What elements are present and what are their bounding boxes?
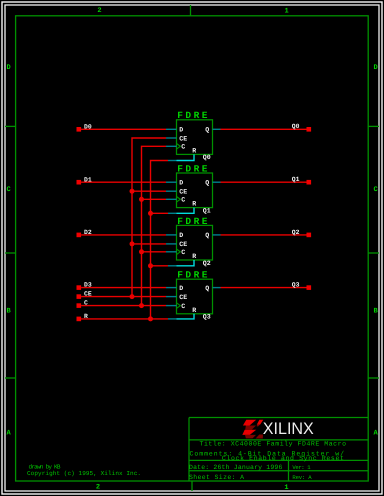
flip-flop U3 FDRE box xyxy=(177,225,213,260)
pin stub U2 C xyxy=(166,198,177,200)
wire Q3 output xyxy=(221,287,307,289)
left zone tick 1 xyxy=(5,125,16,127)
right zone tick 2 xyxy=(368,252,379,254)
input terminal CE xyxy=(77,294,82,299)
svg-text:C: C xyxy=(181,197,185,204)
pin stub U3 CE xyxy=(166,243,177,245)
svg-text:Ver: 1: Ver: 1 xyxy=(292,464,311,471)
R pin cyan wire U3 xyxy=(177,260,195,266)
title block column divider xyxy=(288,460,290,481)
svg-text:C: C xyxy=(181,249,185,256)
pin stub U2 R xyxy=(168,212,177,214)
svg-text:R: R xyxy=(192,201,196,208)
junction R net dot 2 xyxy=(148,263,153,268)
wire D2 xyxy=(81,234,166,236)
R pin cyan wire U1 xyxy=(177,154,195,160)
title block top edge xyxy=(189,417,368,419)
svg-text:D: D xyxy=(179,127,183,134)
svg-text:CE: CE xyxy=(179,241,187,248)
title block row line under date xyxy=(189,470,368,472)
svg-text:D1: D1 xyxy=(84,176,92,183)
R pin cyan wire U2 xyxy=(177,208,195,214)
svg-text:2: 2 xyxy=(96,484,100,492)
C vertical bus xyxy=(142,146,167,305)
right zone tick 1 xyxy=(368,125,379,127)
junction R net dot 1 xyxy=(148,211,153,216)
svg-text:Q1: Q1 xyxy=(292,176,300,183)
svg-text:2: 2 xyxy=(97,7,101,15)
svg-text:Q2: Q2 xyxy=(292,229,300,236)
flip-flop U1 FDRE box xyxy=(177,120,213,155)
clock wedge U2 xyxy=(177,197,181,203)
wire C input xyxy=(81,305,166,307)
junction CE net dot 2 xyxy=(130,241,135,246)
CE branch to U3 xyxy=(132,243,166,245)
svg-text:1: 1 xyxy=(284,8,288,16)
output terminal Q2 xyxy=(307,233,312,238)
svg-text:D: D xyxy=(6,64,10,72)
wire D1 xyxy=(81,181,166,183)
svg-text:R: R xyxy=(192,148,196,155)
pin stub U4 D xyxy=(166,287,177,289)
input terminal D1 xyxy=(77,180,82,185)
svg-text:R: R xyxy=(192,307,196,314)
svg-text:Q: Q xyxy=(205,285,209,292)
pin stub U4 C xyxy=(166,305,177,307)
svg-text:D: D xyxy=(373,64,377,72)
wire D3 xyxy=(81,287,166,289)
wire D0 xyxy=(81,128,166,130)
junction R net dot 3 xyxy=(148,316,153,321)
pin stub U1 D xyxy=(166,128,177,130)
right zone tick 3 xyxy=(368,377,379,379)
R branch to U3 xyxy=(151,265,169,267)
svg-text:FDRE: FDRE xyxy=(177,216,210,227)
svg-text:Q0: Q0 xyxy=(292,123,300,130)
svg-text:D: D xyxy=(179,285,183,292)
clock wedge U1 xyxy=(177,144,181,150)
pin stub U1 R xyxy=(168,160,177,162)
CE branch to U2 xyxy=(132,190,166,192)
left zone tick 3 xyxy=(5,377,16,379)
clock wedge U4 xyxy=(177,303,181,309)
svg-text:D: D xyxy=(179,180,183,187)
svg-text:C: C xyxy=(373,186,377,194)
pin stub U2 Q xyxy=(213,181,221,183)
title block row line under comments xyxy=(189,459,368,461)
junction C net dot 1 xyxy=(139,197,144,202)
pin stub U4 R xyxy=(168,318,177,320)
clock wedge U3 xyxy=(177,249,181,255)
svg-text:CE: CE xyxy=(179,189,187,196)
title block row line under logo xyxy=(189,439,368,441)
bottom zone tick xyxy=(191,481,193,491)
svg-text:D: D xyxy=(179,232,183,239)
C branch to U3 xyxy=(142,251,167,253)
svg-text:R: R xyxy=(84,313,88,320)
junction C net dot 3 xyxy=(139,303,144,308)
pin stub U3 D xyxy=(166,234,177,236)
R pin cyan wire U4 xyxy=(177,314,195,319)
pin stub U2 D xyxy=(166,181,177,183)
svg-text:FDRE: FDRE xyxy=(177,110,210,121)
svg-text:C: C xyxy=(181,144,185,151)
input terminal D0 xyxy=(77,127,82,132)
svg-text:D3: D3 xyxy=(84,282,92,289)
pin stub U4 Q xyxy=(213,287,221,289)
svg-text:Rev: A: Rev: A xyxy=(292,474,312,481)
pin stub U3 R xyxy=(168,265,177,267)
wire Q1 output xyxy=(221,181,307,183)
svg-text:Sheet Size: A: Sheet Size: A xyxy=(189,474,244,481)
pin stub U4 CE xyxy=(166,296,177,298)
title block left edge xyxy=(188,418,190,481)
C branch to U2 xyxy=(142,198,167,200)
svg-text:Clock Enable and Sync Reset: Clock Enable and Sync Reset xyxy=(222,455,344,462)
svg-text:CE: CE xyxy=(84,291,92,298)
pin stub U1 Q xyxy=(213,128,221,130)
svg-text:Date: 26th January 1996: Date: 26th January 1996 xyxy=(189,464,282,471)
junction C net dot 2 xyxy=(139,249,144,254)
input terminal R xyxy=(77,317,82,322)
junction CE net dot 1 xyxy=(130,189,135,194)
svg-text:XILINX: XILINX xyxy=(263,419,314,438)
svg-text:Q1: Q1 xyxy=(203,207,211,214)
svg-text:C: C xyxy=(6,186,10,194)
output terminal Q3 xyxy=(307,285,312,290)
wire R input xyxy=(81,318,168,320)
svg-text:CE: CE xyxy=(179,135,187,142)
svg-text:R: R xyxy=(192,253,196,260)
svg-text:1: 1 xyxy=(284,484,288,492)
output terminal Q1 xyxy=(307,180,312,185)
flip-flop U4 FDRE box xyxy=(177,279,213,314)
wire Q0 output xyxy=(221,128,307,130)
pin stub U1 C xyxy=(166,145,177,147)
junction CE net dot 3 xyxy=(130,294,135,299)
svg-text:Q: Q xyxy=(205,180,209,187)
svg-text:Q2: Q2 xyxy=(203,260,211,267)
input terminal C xyxy=(77,303,82,308)
input terminal D3 xyxy=(77,285,82,290)
svg-text:Q3: Q3 xyxy=(203,314,211,321)
pin stub U3 C xyxy=(166,251,177,253)
pin stub U3 Q xyxy=(213,234,221,236)
svg-text:D2: D2 xyxy=(84,229,92,236)
svg-text:C: C xyxy=(181,303,185,310)
svg-text:Title: XC4000E Family FD4RE Ma: Title: XC4000E Family FD4RE Macro xyxy=(200,441,347,448)
input terminal D2 xyxy=(77,233,82,238)
svg-text:Q: Q xyxy=(205,232,209,239)
wire Q2 output xyxy=(221,234,307,236)
wire CE input xyxy=(81,296,166,298)
svg-text:Q: Q xyxy=(205,127,209,134)
left zone tick 2 xyxy=(5,252,16,254)
flip-flop U2 FDRE box xyxy=(177,173,213,208)
CE vertical bus xyxy=(132,138,166,297)
svg-text:D0: D0 xyxy=(84,123,92,130)
svg-text:Q0: Q0 xyxy=(203,154,211,161)
top zone tick xyxy=(190,5,192,16)
output terminal Q0 xyxy=(307,127,312,132)
svg-text:CE: CE xyxy=(179,294,187,301)
pin stub U2 CE xyxy=(166,190,177,192)
R branch to U2 xyxy=(151,212,169,214)
pin stub U1 CE xyxy=(166,137,177,139)
svg-text:FDRE: FDRE xyxy=(177,270,210,281)
svg-text:Copyright (c) 1995, Xilinx Inc: Copyright (c) 1995, Xilinx Inc. xyxy=(27,470,141,477)
svg-text:Q3: Q3 xyxy=(292,282,300,289)
R vertical bus xyxy=(151,161,169,319)
Xilinx logo red X emblem xyxy=(242,420,263,439)
svg-text:FDRE: FDRE xyxy=(177,163,210,174)
svg-text:C: C xyxy=(84,300,88,307)
